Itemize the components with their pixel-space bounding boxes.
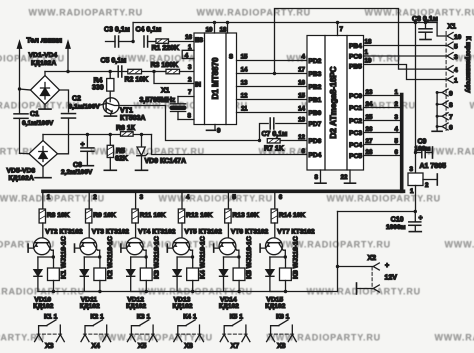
- connector X2 ground pin: [357, 283, 380, 294]
- svg-text:КД102А: КД102А: [9, 175, 34, 182]
- capacitor C1 0.1u/100V on left rail: [14, 89, 28, 153]
- svg-text:PB3: PB3: [309, 71, 322, 78]
- resistor R9 10K: [86, 209, 92, 239]
- wire: VT1 collector to R7/C7 node: [119, 106, 260, 141]
- diode bridge VD5-VD8 KD102A: [29, 141, 58, 167]
- resistor R14 10K: [271, 209, 277, 239]
- connector X4: [81, 334, 111, 350]
- svg-text:3: 3: [395, 114, 399, 121]
- D1 pin 9 ground: [207, 125, 222, 135]
- wire: VT6 collector node: [224, 250, 241, 259]
- node: Tel line label: [27, 38, 63, 45]
- capacitor C8 0.1u: [419, 23, 432, 40]
- svg-text:18: 18: [365, 39, 372, 46]
- svg-text:PD7: PD7: [309, 121, 322, 128]
- svg-text:1: 1: [395, 89, 399, 96]
- svg-text:C8 0,1м: C8 0,1м: [412, 16, 438, 23]
- svg-text:X7: X7: [231, 343, 240, 350]
- svg-text:PC4: PC4: [349, 142, 362, 149]
- D1 pin 7: [178, 89, 194, 97]
- svg-text:PC1: PC1: [349, 105, 362, 112]
- svg-text:WWW.RADIOPARTY.RU: WWW.RADIOPARTY.RU: [427, 147, 474, 157]
- svg-text:24: 24: [366, 101, 373, 108]
- wire: PB3 net to programmer (top bypass): [273, 9, 447, 76]
- wire: junction down to D1 pin 2 (IN): [154, 72, 194, 84]
- svg-text:K2 WJ118-1C: K2 WJ118-1C: [107, 236, 114, 279]
- svg-text:К программатору: К программатору: [465, 36, 472, 93]
- D1 pin 18: [220, 23, 228, 34]
- svg-text:PC0: PC0: [349, 93, 362, 100]
- svg-text:2,2м/100V: 2,2м/100V: [61, 169, 93, 176]
- svg-text:КТ503А: КТ503А: [120, 115, 145, 122]
- svg-text:27: 27: [366, 138, 373, 145]
- connector X1 pin 3: [447, 53, 458, 61]
- svg-text:R2 10K: R2 10K: [125, 77, 149, 84]
- connector X2 dashed boundary: [371, 267, 373, 289]
- svg-text:1: 1: [365, 49, 369, 56]
- connector X1 pin 10: [447, 33, 462, 41]
- resistor R1 220K: [156, 39, 194, 43]
- svg-text:K1 WJ118-1C: K1 WJ118-1C: [61, 236, 68, 279]
- transistor VT1 KT503A: [100, 98, 119, 116]
- svg-text:K4 WJ118-1C: K4 WJ118-1C: [200, 236, 207, 279]
- transistor VT4 KT3102: [122, 238, 147, 255]
- wire: VT4 collector node: [131, 250, 148, 259]
- connector X1 pin 4: [447, 66, 458, 74]
- svg-text:C10: C10: [391, 217, 404, 224]
- svg-text:WWW.RADIOPARTY.RU: WWW.RADIOPARTY.RU: [470, 101, 474, 111]
- svg-text:6: 6: [279, 194, 283, 201]
- resistor R5 62K: [104, 135, 116, 171]
- diode VD12 KD102 (flyback): [127, 257, 147, 292]
- svg-text:PC5: PC5: [349, 153, 362, 160]
- svg-text:+: +: [385, 263, 389, 270]
- svg-text:VD9 КС147А: VD9 КС147А: [145, 158, 187, 165]
- svg-text:1: 1: [188, 44, 192, 51]
- diode VD13 KD102 (flyback): [173, 257, 193, 292]
- wire: VT7 collector node: [270, 250, 287, 259]
- svg-text:VT7 КТ3102: VT7 КТ3102: [277, 229, 315, 236]
- svg-text:D2 АТmega8-16РС: D2 АТmega8-16РС: [329, 66, 338, 138]
- relay coil K2 WJ118-1C: [94, 257, 106, 293]
- svg-text:0,1м/100V: 0,1м/100V: [22, 120, 54, 127]
- D2 pin 12 number: [298, 134, 305, 141]
- svg-text:7: 7: [188, 89, 192, 96]
- svg-text:D1 МТ8870: D1 МТ8870: [211, 57, 220, 99]
- svg-text:PC6: PC6: [349, 54, 362, 61]
- relay coil K5 WJ118-1C: [233, 257, 245, 293]
- voltage regulator A1 7805: [408, 166, 423, 186]
- svg-text:PD2: PD2: [309, 58, 322, 65]
- svg-text:0,1м/100V: 0,1м/100V: [69, 104, 101, 111]
- ground below bridge2: [35, 167, 51, 178]
- D2 pin label PD4: [309, 152, 322, 159]
- resistor R6 1K: [109, 132, 144, 137]
- svg-text:28: 28: [366, 149, 373, 156]
- svg-text:100м: 100м: [415, 146, 431, 153]
- D1 pin 10: [206, 23, 215, 34]
- capacitor C9 100u: [416, 147, 433, 158]
- transistor VT5 KT3102: [168, 238, 193, 255]
- svg-text:R3 100K: R3 100K: [151, 62, 179, 69]
- wire: D2 PC5 (pin 28) to bus line 6: [349, 149, 400, 160]
- svg-text:1: 1: [47, 194, 51, 201]
- wire: D1 pin 15 to D2 PD2: [229, 54, 307, 61]
- svg-text:4: 4: [186, 194, 190, 201]
- svg-text:9: 9: [217, 128, 221, 135]
- diode VD11 KD102 (flyback): [80, 257, 100, 292]
- svg-text:VT1: VT1: [120, 108, 133, 115]
- diode bridge VD1-VD4 KD102A: [31, 76, 60, 105]
- op-amp U1: IC D1 MT8870 (DTMF decoder): [194, 33, 237, 125]
- D2 pin label PD6: [309, 138, 322, 145]
- wire: VT3 collector node: [84, 250, 101, 259]
- svg-text:PB2: PB2: [309, 84, 322, 91]
- svg-text:26: 26: [366, 126, 373, 133]
- svg-text:C9: C9: [418, 139, 427, 146]
- connector X1 pin 5: [447, 42, 458, 51]
- wire: VT2 collector node: [38, 250, 55, 259]
- svg-text:+: +: [81, 142, 85, 149]
- svg-text:7: 7: [340, 26, 344, 33]
- wire: top signal line from bridge1 to C5: [45, 70, 154, 73]
- relay contact K4.1: [178, 314, 200, 335]
- svg-text:1: 1: [454, 77, 458, 84]
- wire: phone line terminal 2 (right rail arrow): [66, 41, 71, 72]
- svg-text:X4: X4: [91, 343, 100, 350]
- wire: D1 pin 14 to D2 PB3: [237, 67, 308, 74]
- svg-text:5: 5: [232, 194, 236, 201]
- D2 pin PB4 (18) to X1 pin 5: [349, 39, 447, 51]
- svg-text:PD6: PD6: [309, 138, 322, 145]
- svg-text:4: 4: [454, 67, 458, 74]
- svg-text:R14 10K: R14 10K: [279, 212, 306, 219]
- connector X3: [35, 334, 65, 350]
- wire: VT5 collector node: [177, 250, 194, 259]
- svg-text:3: 3: [410, 166, 414, 173]
- wire: D1 pin 13 to D2 PB2: [237, 80, 308, 87]
- svg-text:K6 WJ118-1C: K6 WJ118-1C: [293, 236, 300, 279]
- svg-text:WWW.RADIOPARTY.RU: WWW.RADIOPARTY.RU: [29, 8, 143, 18]
- quartz crystal X1 3.5795MHz: [170, 97, 186, 120]
- svg-text:VT6 КТ3102: VT6 КТ3102: [231, 229, 269, 236]
- wire: +12V down to X2 and relay rail: [336, 212, 339, 292]
- ground at VT4 emitter: [120, 244, 122, 252]
- svg-text:WWW.RADIOPARTY.RU: WWW.RADIOPARTY.RU: [445, 240, 474, 250]
- wire: bus tap 6: [275, 193, 283, 209]
- svg-text:17: 17: [298, 67, 305, 74]
- relay coil K1 WJ118-1C: [48, 257, 60, 293]
- svg-text:X8: X8: [277, 343, 286, 350]
- diode VD14 KD102 (flyback): [220, 257, 240, 292]
- D2 pin label PB1: [309, 97, 322, 104]
- D2 pin PC6 (1) to X1 pin 3: [349, 49, 447, 61]
- svg-text:4: 4: [395, 126, 399, 133]
- svg-text:PC2: PC2: [349, 118, 362, 125]
- svg-text:15: 15: [241, 54, 248, 61]
- relay coil K6 WJ118-1C: [280, 257, 292, 293]
- wire: +5V top rail: [133, 21, 437, 24]
- svg-text:X1: X1: [448, 24, 457, 31]
- svg-text:R6 1К: R6 1К: [116, 125, 136, 132]
- svg-text:X5: X5: [138, 343, 147, 350]
- capacitor C10 1000u electrolytic: [409, 212, 422, 232]
- svg-text:16: 16: [298, 80, 305, 87]
- svg-text:КД102: КД102: [219, 303, 239, 310]
- svg-text:PB5: PB5: [349, 64, 362, 71]
- capacitor C7 0.1u: [260, 118, 308, 141]
- svg-text:R8 10K: R8 10K: [47, 212, 70, 219]
- capacitor C4 0.1u: [144, 36, 156, 47]
- wire: D2 PC1 (pin 24) to bus line 2: [349, 101, 400, 112]
- svg-text:6: 6: [395, 149, 399, 156]
- D2 pin PB5 (19) to X1 pin 1: [349, 58, 447, 80]
- svg-text:14: 14: [241, 67, 248, 74]
- svg-text:8: 8: [315, 174, 319, 181]
- svg-text:PD4: PD4: [309, 152, 322, 159]
- D2 pin label PB3: [309, 71, 322, 78]
- connector X1 pin 1: [447, 76, 458, 84]
- resistor R13 10K: [225, 209, 231, 239]
- D1 pin 16 ES: [185, 34, 203, 44]
- wire: bridge1 right corner to C2: [60, 90, 69, 112]
- D2 pin 7 VCC: [338, 23, 344, 36]
- relay coil K4 WJ118-1C: [187, 257, 199, 293]
- svg-text:C6: C6: [73, 162, 82, 169]
- wire: output bus vertical (thick): [400, 95, 404, 192]
- wire: D2 PC3 (pin 26) to bus line 4: [349, 126, 400, 137]
- op-amp U2: IC D2 ATmega8-16PC (MCU): [307, 36, 364, 171]
- svg-text:4: 4: [185, 53, 189, 60]
- svg-text:S: S: [229, 55, 233, 61]
- svg-text:PB4: PB4: [349, 43, 362, 50]
- A1 pin 1 (+12V input): [410, 186, 417, 214]
- wire: D1 pin 11 to D2 PB0: [237, 106, 308, 113]
- relay contact K2.1: [85, 314, 107, 335]
- wire: +5V down to A1 output: [414, 23, 417, 174]
- node: C3/C4 junction to +5V rail: [131, 23, 134, 44]
- wire: bus tap 2: [89, 193, 97, 209]
- D2 pin label PD7: [309, 121, 322, 128]
- svg-text:PB1: PB1: [309, 97, 322, 104]
- svg-text:16: 16: [185, 34, 192, 41]
- connector X2 +12V pin: [338, 263, 380, 270]
- resistor R2 10K: [128, 69, 142, 74]
- relay coil K3 WJ118-1C: [140, 257, 152, 293]
- svg-text:КД102: КД102: [173, 303, 193, 310]
- svg-text:+: +: [418, 215, 422, 222]
- svg-text:3: 3: [140, 194, 144, 201]
- D2 pin label PB2: [309, 84, 322, 91]
- svg-text:VD1-VD4: VD1-VD4: [29, 52, 58, 59]
- transistor VT7 KT3102: [261, 238, 286, 255]
- svg-text:КД102: КД102: [265, 303, 285, 310]
- svg-text:3,5795MHz: 3,5795MHz: [140, 97, 176, 104]
- svg-text:X1: X1: [161, 88, 170, 95]
- svg-text:12: 12: [298, 134, 305, 141]
- capacitor C3 0.1u: [106, 36, 134, 47]
- wire: bus tap 4: [182, 193, 190, 209]
- connector X5: [127, 334, 157, 350]
- svg-text:5: 5: [454, 44, 458, 51]
- connector X6: [174, 334, 204, 350]
- svg-text:11: 11: [241, 106, 248, 113]
- svg-text:K5 WJ118-1C: K5 WJ118-1C: [246, 236, 253, 279]
- relay contact K6.1: [271, 314, 293, 335]
- relay contact K3.1: [131, 314, 153, 335]
- wire: +5V rail to X1 pin 10: [437, 23, 447, 37]
- svg-text:VT4 КТ3102: VT4 КТ3102: [138, 229, 176, 236]
- ground below bridge1: [39, 105, 51, 110]
- svg-text:12: 12: [241, 93, 248, 100]
- node: R2/R3 junction: [152, 70, 155, 73]
- svg-text:WWW.RADIOPARTY.RU: WWW.RADIOPARTY.RU: [267, 333, 381, 343]
- svg-text:R12 10K: R12 10K: [186, 212, 213, 219]
- wire: D1 pin 12 to D2 PB1: [237, 93, 308, 100]
- connector X2 labels: [368, 255, 398, 282]
- wire: R6 node line (bridge2 top across to VD9): [43, 134, 152, 136]
- svg-text:КД102А: КД102А: [31, 60, 56, 67]
- wire: bus tap 1: [43, 193, 51, 209]
- resistor R3 100K: [154, 69, 194, 74]
- D2 pin label PB0: [309, 110, 322, 117]
- svg-text:R9 10K: R9 10K: [93, 212, 116, 219]
- svg-text:R5: R5: [116, 148, 125, 155]
- D2 pin label PD2: [309, 58, 322, 65]
- wire: bus tap 5: [228, 193, 236, 209]
- svg-text:5: 5: [395, 138, 399, 145]
- svg-text:C3 0,1м: C3 0,1м: [104, 27, 130, 34]
- wire: D2 PC4 (pin 27) to bus line 5: [349, 138, 400, 149]
- D1 pin 2 IN: [188, 77, 201, 89]
- svg-text:6: 6: [302, 148, 306, 155]
- svg-text:8: 8: [449, 102, 453, 109]
- svg-text:330: 330: [92, 84, 104, 91]
- svg-text:VT3 КТ3102: VT3 КТ3102: [92, 229, 130, 236]
- resistor R12 10K: [178, 209, 184, 239]
- D2 pin 22 ground: [341, 170, 356, 183]
- ground at VT3 emitter: [74, 244, 76, 252]
- svg-text:КД102: КД102: [33, 303, 53, 310]
- connector X1 dashed boundary: [445, 32, 447, 131]
- svg-text:X6: X6: [184, 343, 193, 350]
- ground at VT7 emitter: [259, 244, 261, 252]
- wire: left rail to bridge1 left corner: [20, 89, 31, 90]
- wire: +12V line: [338, 211, 416, 213]
- svg-text:19: 19: [365, 58, 372, 65]
- svg-text:6: 6: [449, 124, 453, 131]
- svg-text:9: 9: [449, 90, 453, 97]
- diode VD10 KD102 (flyback): [34, 257, 54, 292]
- ground at VT2 emitter: [27, 244, 29, 252]
- svg-text:A1 7805: A1 7805: [420, 163, 447, 170]
- svg-text:C5 0,1м: C5 0,1м: [101, 58, 127, 65]
- svg-text:Тел линия: Тел линия: [27, 38, 63, 45]
- svg-text:3: 3: [454, 54, 458, 61]
- svg-text:22: 22: [341, 174, 348, 181]
- connector X7: [220, 334, 250, 350]
- capacitor C6 2.2u/100V electrolytic: [81, 133, 94, 166]
- svg-text:C7 0,1м: C7 0,1м: [262, 131, 288, 138]
- connector X8: [267, 334, 297, 350]
- D2 pin 6 number: [302, 148, 306, 155]
- svg-text:2: 2: [188, 77, 192, 84]
- svg-text:VD5-VD8: VD5-VD8: [7, 167, 36, 174]
- D1 pins 1-4 loop: [182, 44, 194, 60]
- resistor R8 10K: [39, 209, 45, 239]
- D1 pin 3: [188, 64, 192, 71]
- svg-text:8: 8: [188, 113, 192, 120]
- relay contact K5.1: [224, 314, 246, 335]
- svg-text:13: 13: [298, 117, 305, 124]
- svg-text:X2: X2: [368, 255, 377, 262]
- svg-text:18: 18: [220, 27, 227, 34]
- wire: C2 bottom to bridge2 right corner: [58, 118, 69, 154]
- ground at VT5 emitter: [166, 244, 168, 252]
- svg-text:КД102: КД102: [126, 303, 146, 310]
- transistor VT6 KT3102: [214, 238, 239, 255]
- wire: bridge2 top corner up to R6 node line: [42, 135, 44, 141]
- wire: D2 PC2 (pin 25) to bus line 3: [349, 114, 400, 125]
- svg-text:WWW.RADIOPARTY.RU: WWW.RADIOPARTY.RU: [327, 194, 441, 204]
- capacitor C5 0.1u: [118, 66, 122, 77]
- transistor VT3 KT3102: [75, 238, 100, 255]
- svg-text:C1: C1: [30, 111, 39, 118]
- relay contact K1.1: [39, 314, 61, 335]
- svg-text:2: 2: [93, 194, 97, 201]
- wire: output bus horizontal (thick): [43, 190, 404, 194]
- svg-text:1: 1: [410, 188, 414, 195]
- svg-text:10: 10: [206, 27, 213, 34]
- wire: phone line terminal 1 (left rail arrow): [17, 41, 22, 91]
- svg-text:2: 2: [395, 101, 399, 108]
- svg-text:62K: 62K: [115, 156, 128, 163]
- svg-text:VT5 КТ3102: VT5 КТ3102: [185, 229, 223, 236]
- ground at VT6 emitter: [213, 244, 215, 252]
- A1 pin 2 ground: [423, 174, 437, 189]
- node: K programmatoru label: [465, 36, 472, 93]
- svg-text:КД102: КД102: [80, 303, 100, 310]
- wire: R6/VD9 node to D2 pin PD4: [152, 135, 308, 155]
- svg-text:X3: X3: [45, 343, 54, 350]
- svg-text:VT2 КТ3102: VT2 КТ3102: [45, 229, 83, 236]
- svg-text:23: 23: [366, 89, 373, 96]
- zener diode VD9 KS147A: [136, 135, 148, 171]
- svg-text:R1 220K: R1 220K: [152, 45, 180, 52]
- D1 pin 8: [178, 113, 194, 120]
- wire: left rail to bridge2 left corner: [20, 152, 30, 154]
- svg-text:25: 25: [366, 114, 373, 121]
- resistor R4 330: [107, 72, 114, 99]
- svg-text:C4 0,1м: C4 0,1м: [136, 27, 162, 34]
- capacitor C2 0.1u/100V: [62, 114, 76, 119]
- svg-text:R11 10K: R11 10K: [140, 212, 166, 219]
- svg-text:13: 13: [241, 80, 248, 87]
- svg-text:IN: IN: [195, 82, 201, 88]
- svg-text:10: 10: [454, 34, 462, 41]
- svg-text:PC3: PC3: [349, 130, 362, 137]
- svg-text:2: 2: [425, 182, 429, 189]
- D2 pin 8 ground: [315, 170, 326, 183]
- wire: +12V relay rail: [54, 291, 338, 293]
- svg-text:K3 WJ118-1C: K3 WJ118-1C: [153, 236, 160, 279]
- svg-text:ES: ES: [195, 38, 203, 44]
- svg-text:3: 3: [188, 64, 192, 71]
- connector X1 label: [448, 24, 457, 31]
- wire: D2 PC0 (pin 23) to bus line 1: [349, 89, 400, 100]
- D2 pin 13 number: [298, 117, 305, 124]
- svg-text:R13 10K: R13 10K: [232, 212, 259, 219]
